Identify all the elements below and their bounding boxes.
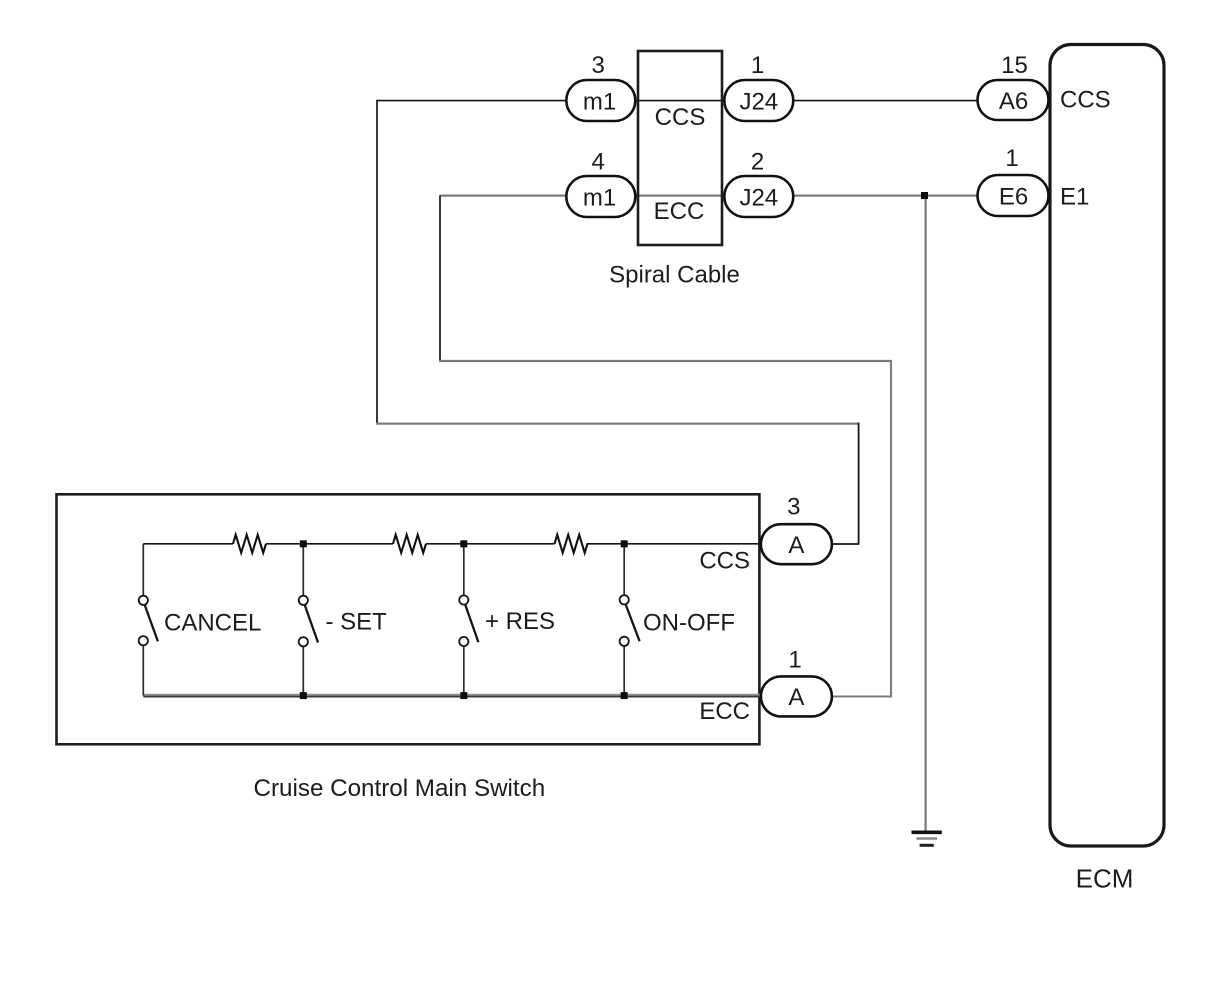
junction dot ON-OFF top bbox=[621, 540, 628, 547]
wire CCS: A pin3 stub bbox=[796, 543, 859, 545]
junction dot ON-OFF bottom bbox=[621, 692, 628, 699]
svg-text:J24: J24 bbox=[739, 88, 778, 115]
wire E1: vertical to ground bbox=[924, 196, 926, 832]
svg-text:15: 15 bbox=[1001, 52, 1028, 79]
svg-text:CANCEL: CANCEL bbox=[164, 609, 261, 636]
spiral cable box bbox=[638, 51, 722, 245]
svg-text:CCS: CCS bbox=[699, 548, 750, 575]
svg-text:A: A bbox=[788, 684, 804, 711]
svg-text:2: 2 bbox=[751, 148, 764, 175]
svg-text:3: 3 bbox=[787, 494, 800, 521]
svg-text:Spiral Cable: Spiral Cable bbox=[609, 262, 740, 289]
connector A pin3 bbox=[761, 494, 832, 565]
connector m1 pin4 bbox=[566, 148, 635, 217]
connector E6 pin1 bbox=[978, 145, 1049, 216]
svg-text:CCS: CCS bbox=[655, 104, 706, 131]
connector J24 pin1 bbox=[724, 52, 793, 121]
svg-text:E6: E6 bbox=[999, 183, 1028, 210]
switch - SET bbox=[299, 544, 318, 696]
connector m1 pin3 bbox=[566, 52, 635, 121]
wire CCS: riser x=858.6 down to A pin3 bbox=[858, 423, 860, 545]
bottom bus bbox=[143, 694, 796, 696]
resistor R3 bbox=[555, 535, 588, 553]
junction dot on E1 wire bbox=[921, 192, 928, 199]
ECM body bbox=[1050, 45, 1164, 847]
wire ECC: riser x=891 down to A pin1 bbox=[890, 360, 892, 697]
wire CCS: horizontal y=424 bbox=[376, 422, 858, 424]
svg-text:- SET: - SET bbox=[326, 609, 388, 636]
switch + RES bbox=[459, 544, 478, 696]
svg-text:4: 4 bbox=[592, 148, 605, 175]
svg-text:1: 1 bbox=[788, 646, 801, 673]
junction dot SET bottom bbox=[300, 692, 307, 699]
wire CCS: m1 pin3 to left riser bbox=[377, 100, 601, 102]
svg-text:A: A bbox=[788, 532, 804, 559]
svg-text:+ RES: + RES bbox=[485, 608, 555, 635]
wire ECC: A pin1 stub bbox=[796, 695, 892, 697]
wire CCS: through spiral cable bbox=[601, 100, 759, 102]
wire ECC: through spiral cable bbox=[601, 194, 759, 196]
resistor R2 bbox=[393, 535, 426, 553]
switch CANCEL bbox=[139, 544, 158, 696]
wire ECC: J24 pin2 to E6 bbox=[759, 194, 1014, 196]
connector A pin1 bbox=[761, 646, 832, 716]
switch ON-OFF bbox=[620, 544, 640, 696]
wire CCS: left riser x=377 bbox=[376, 100, 378, 424]
svg-text:A6: A6 bbox=[999, 88, 1028, 115]
svg-text:1: 1 bbox=[1005, 145, 1018, 172]
connector A6 pin15 bbox=[978, 52, 1049, 120]
svg-text:E1: E1 bbox=[1060, 183, 1089, 210]
svg-text:3: 3 bbox=[592, 52, 605, 79]
svg-text:ON-OFF: ON-OFF bbox=[643, 609, 735, 636]
junction dot RES bottom bbox=[460, 692, 467, 699]
wire CCS: J24 pin1 to A6 bbox=[759, 100, 1014, 102]
svg-text:ECC: ECC bbox=[654, 198, 705, 225]
wire ECC: riser x=440 bbox=[439, 196, 441, 361]
svg-text:m1: m1 bbox=[583, 184, 616, 211]
top bus segments bbox=[143, 543, 796, 545]
svg-text:Cruise Control Main Switch: Cruise Control Main Switch bbox=[254, 775, 546, 802]
svg-text:J24: J24 bbox=[739, 184, 778, 211]
junction dot RES top bbox=[460, 540, 467, 547]
resistor R1 bbox=[233, 535, 266, 553]
svg-text:ECC: ECC bbox=[699, 698, 750, 725]
svg-text:m1: m1 bbox=[583, 88, 616, 115]
svg-text:CCS: CCS bbox=[1060, 87, 1111, 114]
ground bbox=[912, 832, 942, 845]
svg-text:ECM: ECM bbox=[1076, 864, 1134, 894]
cruise control main switch box bbox=[57, 494, 760, 744]
svg-text:1: 1 bbox=[751, 52, 764, 79]
connector J24 pin2 bbox=[724, 148, 793, 217]
wire ECC: horizontal y=361 bbox=[439, 360, 891, 362]
wire ECC: m1 pin4 to left riser bbox=[440, 194, 602, 196]
junction dot SET top bbox=[300, 540, 307, 547]
